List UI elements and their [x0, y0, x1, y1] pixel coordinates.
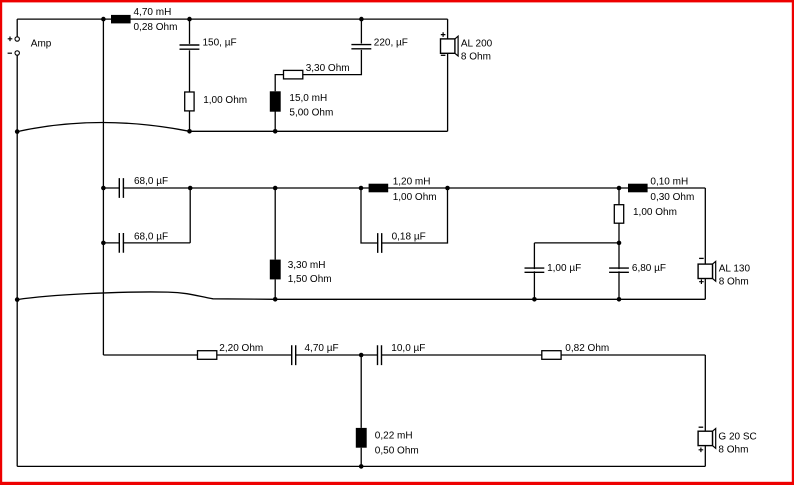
junction dot top rail at main rail — [101, 17, 106, 22]
svg-text:3,30 mH: 3,30 mH — [288, 260, 326, 271]
junction dot bottom row at 0,22mH — [359, 353, 364, 358]
border frame left — [0, 0, 2, 485]
svg-text:0,82 Ohm: 0,82 Ohm — [565, 343, 609, 354]
wire R 1,00 mid branch — [618, 188, 620, 243]
border frame right — [792, 0, 794, 485]
svg-text:1,50 Ohm: 1,50 Ohm — [288, 274, 332, 285]
resistor R 3,30 Ohm — [284, 70, 303, 79]
wire mid section return — [275, 298, 705, 300]
junction dot mid row left of 1,20mH — [359, 186, 364, 191]
svg-text:1,00 Ohm: 1,00 Ohm — [633, 207, 677, 218]
wire main vertical rail — [102, 19, 104, 355]
speaker AL130 plus sign — [699, 279, 704, 284]
junction dot mid return at 1,00uF — [532, 297, 537, 302]
wire R 1,00 to bottom — [189, 111, 191, 131]
junction dot top return left — [15, 129, 20, 134]
svg-text:Amp: Amp — [31, 38, 52, 49]
svg-text:8 Ohm: 8 Ohm — [719, 277, 749, 288]
wire bottom return — [17, 465, 705, 467]
wire mid second row — [534, 242, 619, 244]
svg-text:2,20 Ohm: 2,20 Ohm — [219, 343, 263, 354]
svg-text:15,0 mH: 15,0 mH — [289, 93, 327, 104]
wire AL130 column — [704, 188, 706, 299]
capacitor C 220uF plates — [351, 44, 371, 50]
svg-text:5,00 Ohm: 5,00 Ohm — [289, 107, 333, 118]
svg-text:G 20 SC: G 20 SC — [718, 432, 756, 443]
svg-text:8 Ohm: 8 Ohm — [461, 51, 491, 62]
inductor L 0,22mH — [356, 428, 367, 448]
wire 3,30mH branch upper — [274, 188, 276, 260]
svg-text:1,20 mH: 1,20 mH — [393, 176, 431, 187]
wire top section return arc — [17, 123, 189, 132]
capacitor C 68uF no1 plates — [119, 178, 123, 198]
amp plus sign — [8, 37, 13, 42]
wire 15mH to bottom — [274, 111, 276, 131]
wire mid rail row — [103, 187, 705, 189]
svg-text:220, µF: 220, µF — [374, 38, 408, 49]
junction dot bottom return at 0,22mH — [359, 464, 364, 469]
junction dot top rail at 220uF — [359, 17, 364, 22]
capacitor C 4,70uF plates — [292, 345, 296, 365]
svg-text:0,28 Ohm: 0,28 Ohm — [134, 22, 178, 33]
wire AL200 column — [447, 19, 449, 131]
svg-text:0,10 mH: 0,10 mH — [650, 176, 688, 187]
wire 68uF no2 riser — [189, 188, 191, 243]
svg-text:0,30 Ohm: 0,30 Ohm — [650, 192, 694, 203]
svg-text:0,18 µF: 0,18 µF — [392, 231, 426, 242]
wire 0,22mH branch upper — [360, 355, 362, 428]
wire 3,30mH branch lower — [274, 279, 276, 299]
wire bottom rail row — [103, 354, 705, 356]
wire mid section return arc — [17, 292, 275, 300]
svg-text:1,00 µF: 1,00 µF — [547, 263, 581, 274]
inductor L 1,20mH — [369, 184, 389, 193]
speaker G20SC — [698, 429, 716, 449]
wire G20SC column — [704, 355, 706, 466]
speaker AL200 — [441, 36, 459, 56]
junction dot mid row at 68uF riser — [188, 186, 193, 191]
junction dot rail at 68uF no2 — [101, 241, 106, 246]
junction dot mid row at R 1,00 — [617, 186, 622, 191]
border frame top — [0, 0, 794, 2]
inductor L 0,10mH — [628, 184, 648, 193]
wire left rail upper — [16, 19, 18, 37]
svg-text:4,70 µF: 4,70 µF — [305, 343, 339, 354]
terminal plus circle — [15, 37, 19, 41]
wire 220uF branch upper — [360, 19, 362, 44]
wire 6,80uF branch — [618, 243, 620, 299]
junction dot mid rail row at rail — [101, 186, 106, 191]
wire left rail lower — [16, 55, 18, 466]
border frame bottom — [0, 482, 794, 485]
speaker AL200 minus sign — [441, 54, 446, 56]
amp minus sign — [8, 52, 12, 54]
wire 1,00uF branch — [533, 243, 535, 299]
svg-text:8 Ohm: 8 Ohm — [718, 444, 748, 455]
resistor R 2,20 Ohm — [198, 351, 217, 360]
svg-text:10,0 µF: 10,0 µF — [391, 343, 425, 354]
wire 0,18uF loop — [361, 188, 448, 243]
svg-text:3,30 Ohm: 3,30 Ohm — [306, 63, 350, 74]
wire 68uF no2 row — [103, 242, 190, 244]
junction dot mid row right of 1,20mH — [445, 186, 450, 191]
wire 220uF to 3,30 Ohm row — [303, 50, 362, 75]
wire 3,30 Ohm to 15mH — [275, 75, 283, 92]
svg-text:1,00 Ohm: 1,00 Ohm — [393, 192, 437, 203]
capacitor C 6,80uF plates — [609, 268, 629, 272]
svg-text:AL 130: AL 130 — [719, 264, 751, 275]
svg-text:0,22 mH: 0,22 mH — [375, 431, 413, 442]
capacitor C 0,18uF plates — [378, 233, 382, 253]
speaker AL130 minus sign — [699, 257, 704, 259]
inductor L 15,0mH — [270, 91, 281, 111]
svg-text:6,80 µF: 6,80 µF — [632, 263, 666, 274]
resistor R 0,82 Ohm — [542, 351, 561, 360]
wire 150uF to R 1,00 — [189, 50, 191, 92]
junction dot mid return left — [15, 297, 20, 302]
svg-text:150, µF: 150, µF — [203, 38, 237, 49]
speaker AL130 — [698, 261, 716, 281]
svg-text:1,00 Ohm: 1,00 Ohm — [203, 95, 247, 106]
speaker AL200 plus sign — [441, 32, 446, 37]
wire 150uF branch upper — [189, 19, 191, 44]
svg-text:68,0 µF: 68,0 µF — [134, 232, 168, 243]
inductor L 4,70mH — [111, 15, 131, 24]
junction dot second row at 6,80uF — [617, 241, 622, 246]
wire top section return — [190, 130, 448, 132]
wire top rail — [17, 18, 447, 20]
junction dot mid return at 6,80uF — [617, 297, 622, 302]
junction dot mid return at 3,30mH — [273, 297, 278, 302]
svg-text:AL 200: AL 200 — [461, 38, 493, 49]
terminal minus circle — [15, 51, 19, 55]
capacitor C 10,0uF plates — [378, 345, 382, 365]
speaker G20SC minus sign — [699, 426, 704, 428]
resistor R 1,00 Ohm top — [185, 92, 194, 111]
capacitor C 68uF no2 plates — [119, 233, 123, 253]
capacitor C 1,00uF plates — [525, 268, 545, 272]
junction dot top return at 150uF — [187, 129, 192, 134]
wire 0,22mH branch lower — [360, 448, 362, 467]
svg-text:68,0 µF: 68,0 µF — [134, 176, 168, 187]
svg-text:4,70 mH: 4,70 mH — [134, 7, 172, 18]
junction dot mid row at 3,30mH — [273, 186, 278, 191]
junction dot top return at 15mH — [273, 129, 278, 134]
capacitor C 150uF plates — [180, 44, 200, 50]
svg-text:0,50 Ohm: 0,50 Ohm — [375, 446, 419, 457]
junction dot top rail at 150uF — [187, 17, 192, 22]
resistor R 1,00 Ohm mid — [614, 205, 623, 224]
inductor L 3,30mH — [270, 260, 281, 280]
speaker G20SC plus sign — [699, 448, 704, 453]
